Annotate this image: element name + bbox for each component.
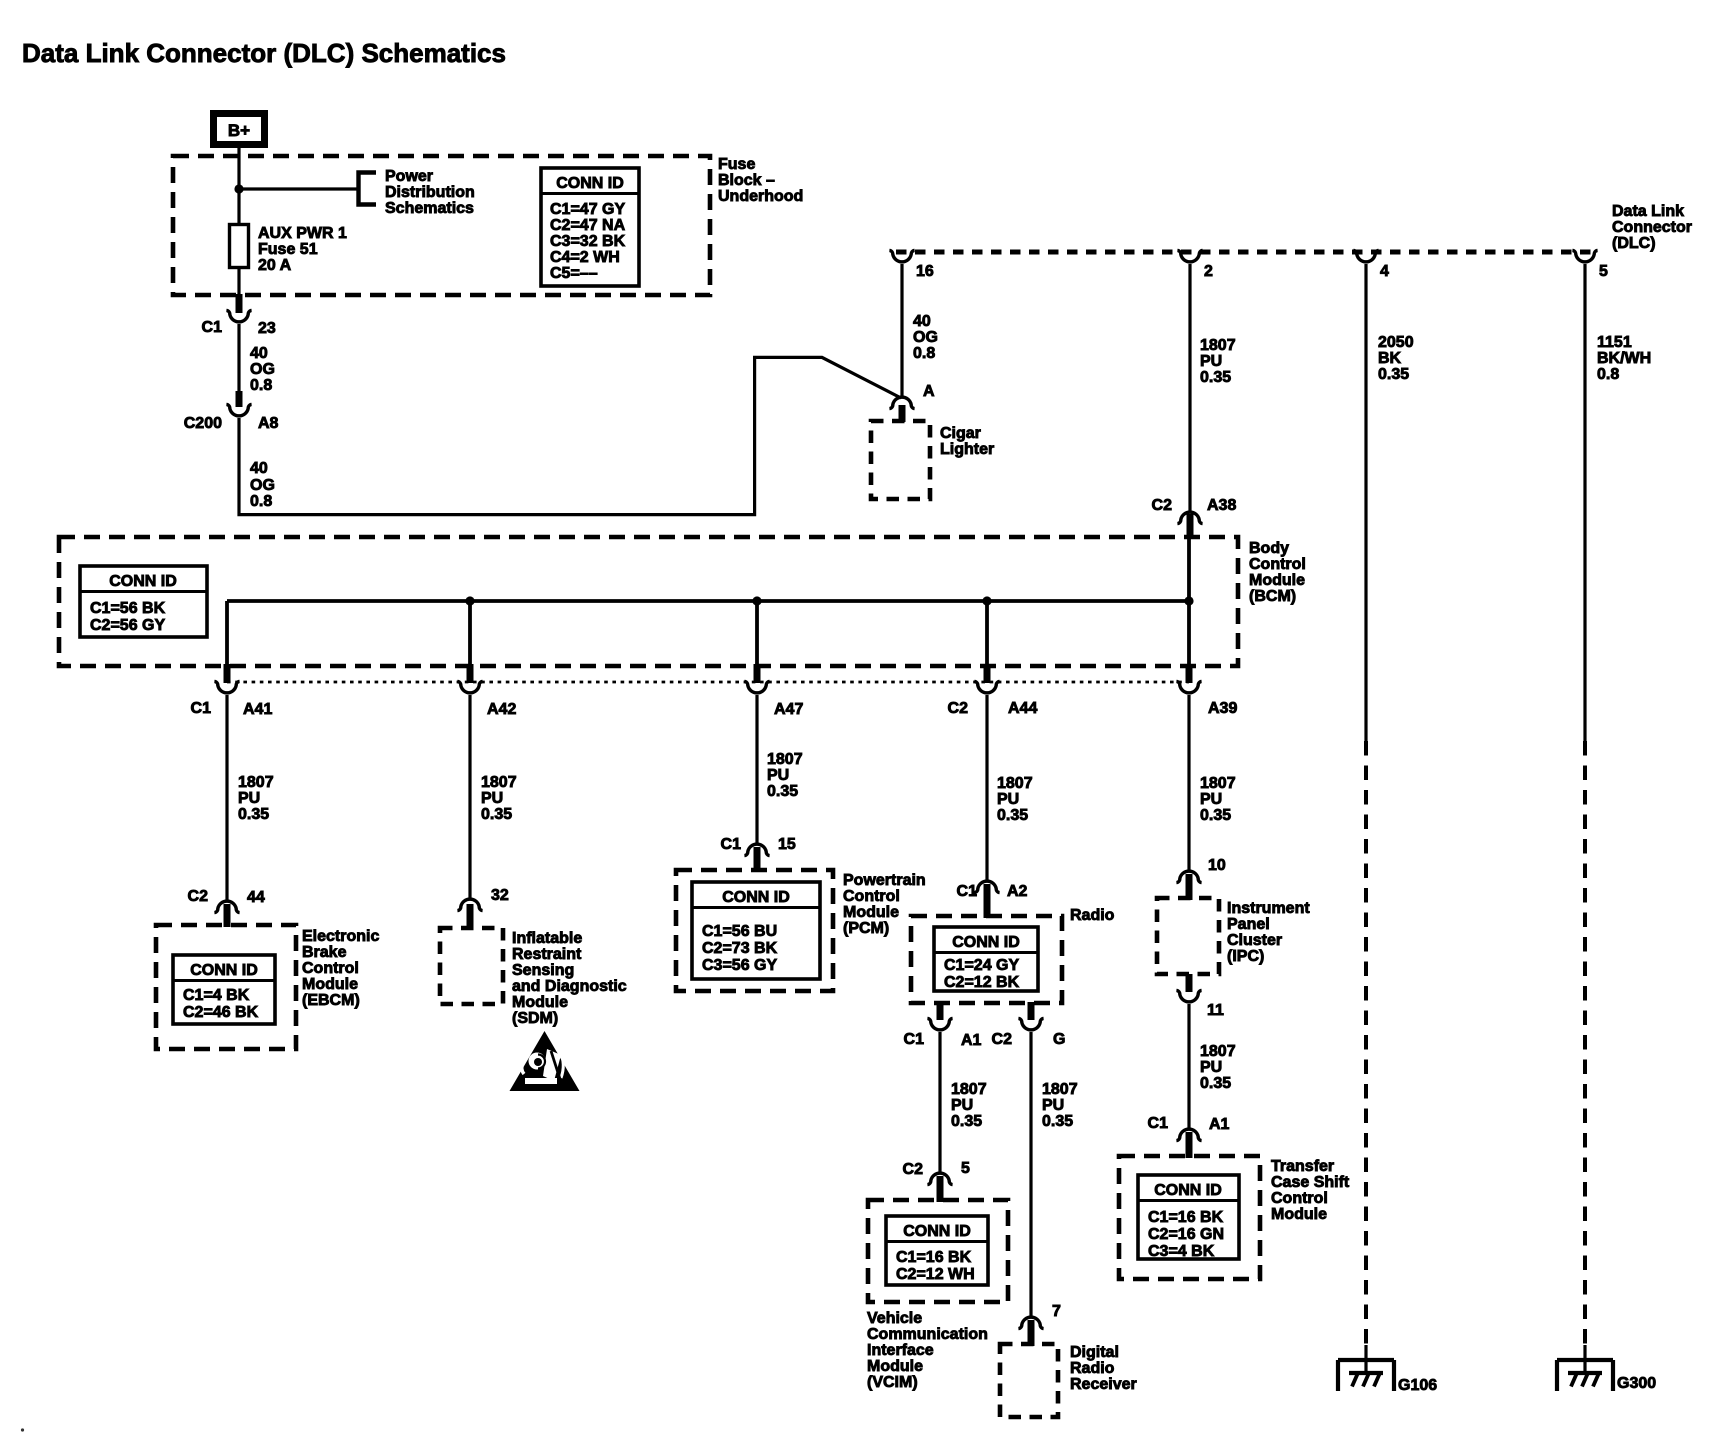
digital radio receiver dashed box [1000, 1344, 1058, 1417]
svg-text:2050: 2050 [1378, 334, 1414, 351]
svg-text:0.35: 0.35 [1378, 366, 1409, 383]
BCM internal bus wire [227, 599, 1189, 603]
svg-text:Power: Power [385, 168, 433, 185]
svg-text:(BCM): (BCM) [1249, 588, 1296, 605]
CONN ID table (fuse block) [541, 168, 639, 286]
svg-text:Cigar: Cigar [940, 425, 981, 442]
svg-text:C1=56 BK: C1=56 BK [90, 600, 166, 617]
svg-text:Data Link: Data Link [1612, 203, 1684, 220]
svg-text:CONN ID: CONN ID [1154, 1182, 1222, 1199]
connector BCM pin A42 [457, 681, 482, 692]
svg-text:OG: OG [913, 329, 938, 346]
svg-text:C1=16 BK: C1=16 BK [896, 1249, 972, 1266]
svg-text:Control: Control [843, 888, 900, 905]
svg-text:C2: C2 [1152, 497, 1173, 514]
connector TCSCM C1 pin A1 [1148, 1115, 1230, 1158]
svg-text:Control: Control [1249, 556, 1306, 573]
svg-text:0.35: 0.35 [951, 1113, 982, 1130]
power distribution reference bracket [359, 173, 377, 205]
connector A cigar lighter [889, 383, 935, 422]
svg-text:16: 16 [916, 263, 934, 280]
svg-text:C200: C200 [184, 415, 222, 432]
svg-text:Block –: Block – [718, 172, 775, 189]
svg-text:Fuse: Fuse [718, 156, 755, 173]
svg-text:Lighter: Lighter [940, 441, 994, 458]
svg-text:A42: A42 [487, 701, 516, 718]
svg-text:PU: PU [481, 790, 503, 807]
svg-text:A1: A1 [961, 1032, 982, 1049]
connector digital radio receiver pin 7 [1018, 1303, 1061, 1346]
svg-text:A44: A44 [1008, 700, 1037, 717]
svg-text:10: 10 [1208, 857, 1226, 874]
svg-text:AUX PWR 1: AUX PWR 1 [258, 225, 347, 242]
svg-text:15: 15 [778, 836, 796, 853]
svg-text:C1=47 GY: C1=47 GY [550, 201, 625, 218]
svg-text:Electronic: Electronic [302, 928, 379, 945]
svg-text:C2=47 NA: C2=47 NA [550, 217, 626, 234]
wire 1151 BK/WH 0.8 (DLC 5 to G300, solid then dashed) [1583, 264, 1586, 741]
svg-text:C1: C1 [904, 1031, 925, 1048]
svg-text:(IPC): (IPC) [1227, 948, 1264, 965]
wire 40 OG 0.8 (DLC 16 to cigar lighter) [900, 264, 903, 396]
svg-text:B+: B+ [228, 121, 250, 140]
svg-text:7: 7 [1052, 1303, 1061, 1320]
svg-text:Communication: Communication [867, 1326, 988, 1343]
svg-text:0.35: 0.35 [481, 806, 512, 823]
svg-text:C2: C2 [188, 888, 209, 905]
svg-text:1807: 1807 [1200, 337, 1236, 354]
connector BCM pin A47 [744, 681, 769, 692]
svg-text:Receiver: Receiver [1070, 1376, 1137, 1393]
svg-text:Radio: Radio [1070, 1360, 1115, 1377]
svg-text:Sensing: Sensing [512, 962, 574, 979]
svg-text:PU: PU [951, 1097, 973, 1114]
DLC module dotted boundary line [896, 250, 1592, 255]
svg-text:C2=46 BK: C2=46 BK [183, 1004, 259, 1021]
svg-text:Module: Module [302, 976, 358, 993]
svg-text:C3=56 GY: C3=56 GY [702, 957, 777, 974]
svg-text:Instrument: Instrument [1227, 900, 1310, 917]
svg-text:C2=12 WH: C2=12 WH [896, 1266, 975, 1283]
svg-text:C2: C2 [948, 700, 969, 717]
svg-text:Body: Body [1249, 540, 1289, 557]
svg-text:0.35: 0.35 [1200, 369, 1231, 386]
svg-text:PU: PU [238, 790, 260, 807]
svg-text:23: 23 [258, 320, 276, 337]
svg-text:C1=56 BU: C1=56 BU [702, 923, 777, 940]
svg-text:BK/WH: BK/WH [1597, 350, 1651, 367]
svg-text:Vehicle: Vehicle [867, 1310, 922, 1327]
connector DLC pin 5 [1572, 250, 1597, 261]
svg-text:Control: Control [1271, 1190, 1328, 1207]
svg-text:C3=4 BK: C3=4 BK [1148, 1243, 1215, 1260]
connector EBCM C2 pin 44 [188, 888, 265, 927]
svg-text:Module: Module [867, 1358, 923, 1375]
fuse block underhood dashed box [173, 156, 710, 295]
svg-text:A39: A39 [1208, 700, 1237, 717]
svg-text:(PCM): (PCM) [843, 920, 889, 937]
connector radio C1 pin A1 (output) [904, 1002, 982, 1049]
CONN ID table (VCIM) [886, 1216, 988, 1285]
ground G106 [1338, 1345, 1437, 1394]
svg-text:C1=24 GY: C1=24 GY [944, 957, 1019, 974]
connector C1 pin 23 (fuse block output) [202, 294, 276, 337]
svg-text:0.35: 0.35 [997, 807, 1028, 824]
svg-text:BK: BK [1378, 350, 1402, 367]
BCM bus stubs down [227, 537, 1189, 666]
svg-text:C2: C2 [992, 1031, 1013, 1048]
wire 1807 PU 0.35 (A42 to SDM) [468, 695, 471, 898]
svg-text:1807: 1807 [767, 751, 803, 768]
svg-text:CONN ID: CONN ID [190, 962, 258, 979]
svg-text:PU: PU [1200, 791, 1222, 808]
svg-text:Module: Module [512, 994, 568, 1011]
fuse F51 AUX PWR 1 20A [230, 225, 249, 268]
svg-text:Case Shift: Case Shift [1271, 1174, 1350, 1191]
svg-text:C2: C2 [903, 1161, 924, 1178]
ground G300 [1557, 1345, 1656, 1392]
connector BCM pin A39 [1176, 681, 1201, 692]
connector DLC pin 2 [1177, 250, 1202, 261]
BCM connector row fine dotted line [227, 681, 1189, 684]
svg-text:Module: Module [1249, 572, 1305, 589]
connector BCM C2 pin A44 [974, 681, 999, 692]
BCM pin stubs through box edge [227, 664, 1189, 683]
cigar lighter dashed box [871, 421, 930, 499]
junction node dots on bus [465, 596, 474, 605]
svg-text:0.35: 0.35 [1042, 1113, 1073, 1130]
svg-text:A: A [923, 383, 935, 400]
wire 1807 PU 0.35 (IPC 11 to transfer case module) [1187, 1004, 1190, 1128]
node junction at power distribution tap [234, 184, 243, 193]
svg-text:A38: A38 [1207, 497, 1236, 514]
svg-text:CONN ID: CONN ID [109, 573, 177, 590]
svg-text:G300: G300 [1617, 1375, 1656, 1392]
wire 1807 PU 0.35 (A41 to EBCM) [225, 695, 228, 900]
wire 40 OG 0.8 (C200 to cigar lighter splice) [239, 357, 901, 514]
vehicle communication interface module dashed box [868, 1200, 1008, 1302]
svg-text:PU: PU [1200, 353, 1222, 370]
wire 1807 PU 0.35 (DLC 2 to BCM A38) [1188, 264, 1191, 511]
svg-text:0.8: 0.8 [250, 493, 272, 510]
svg-text:20 A: 20 A [258, 257, 292, 274]
svg-text:(EBCM): (EBCM) [302, 992, 360, 1009]
svg-text:C5=––: C5=–– [550, 265, 598, 282]
svg-text:C2=16 GN: C2=16 GN [1148, 1226, 1224, 1243]
svg-text:0.35: 0.35 [1200, 807, 1231, 824]
wire 1807 PU 0.35 (A44 to radio) [985, 695, 988, 880]
svg-text:Powertrain: Powertrain [843, 872, 926, 889]
svg-text:40: 40 [913, 313, 931, 330]
svg-text:Module: Module [843, 904, 899, 921]
svg-text:CONN ID: CONN ID [722, 889, 790, 906]
svg-text:44: 44 [247, 889, 265, 906]
electronic brake control module dashed box [156, 925, 296, 1049]
svg-text:C1: C1 [957, 883, 978, 900]
svg-text:C1=4 BK: C1=4 BK [183, 987, 250, 1004]
svg-text:5: 5 [961, 1160, 970, 1177]
svg-text:Connector: Connector [1612, 219, 1692, 236]
svg-text:1807: 1807 [997, 775, 1033, 792]
airbag caution symbol [510, 1031, 580, 1091]
connector BCM C2 pin A38 [1152, 497, 1237, 539]
wire 1807 PU 0.35 (radio G to digital radio receiver) [1029, 1032, 1032, 1316]
svg-text:Digital: Digital [1070, 1344, 1119, 1361]
connector radio C2 pin G (output) [992, 1002, 1066, 1048]
svg-text:PU: PU [1200, 1059, 1222, 1076]
CONN ID table (BCM) [80, 566, 207, 637]
connector PCM C1 pin 15 [721, 836, 796, 872]
inflatable restraint SDM dashed box [440, 928, 503, 1004]
svg-text:Fuse 51: Fuse 51 [258, 241, 318, 258]
svg-text:A47: A47 [774, 701, 803, 718]
svg-text:CONN ID: CONN ID [903, 1223, 971, 1240]
inline connector C200 pin A8 [184, 391, 279, 432]
svg-text:A8: A8 [258, 415, 279, 432]
connector DLC pin 16 [889, 250, 914, 261]
transfer case shift control module dashed box [1119, 1156, 1260, 1279]
svg-text:40: 40 [250, 460, 268, 477]
svg-text:0.8: 0.8 [250, 377, 272, 394]
svg-text:Brake: Brake [302, 944, 347, 961]
svg-text:Distribution: Distribution [385, 184, 475, 201]
svg-text:2: 2 [1204, 263, 1213, 280]
svg-text:A2: A2 [1007, 883, 1028, 900]
svg-text:1807: 1807 [951, 1081, 987, 1098]
svg-text:1151: 1151 [1597, 334, 1632, 351]
connector DLC pin 4 [1353, 250, 1378, 261]
wire tap to power distribution bracket [239, 187, 357, 190]
svg-text:Transfer: Transfer [1271, 1158, 1334, 1175]
stray dot artifact [21, 1428, 24, 1431]
connector BCM C1 pin A41 [214, 681, 239, 692]
svg-text:32: 32 [491, 887, 509, 904]
svg-text:C1: C1 [191, 700, 212, 717]
body control module dashed box [59, 537, 1238, 666]
svg-text:Control: Control [302, 960, 359, 977]
svg-text:C1: C1 [1148, 1115, 1169, 1132]
CONN ID table (EBCM) [173, 955, 275, 1024]
svg-text:Restraint: Restraint [512, 946, 582, 963]
svg-text:0.35: 0.35 [767, 783, 798, 800]
svg-text:C1: C1 [721, 836, 742, 853]
svg-text:1807: 1807 [1200, 1043, 1236, 1060]
svg-text:PU: PU [767, 767, 789, 784]
svg-text:and Diagnostic: and Diagnostic [512, 978, 627, 995]
connector SDM pin 32 [457, 887, 508, 930]
svg-text:4: 4 [1380, 263, 1389, 280]
svg-text:OG: OG [250, 477, 275, 494]
svg-text:G: G [1053, 1031, 1065, 1048]
svg-text:40: 40 [250, 345, 268, 362]
battery feed B+ [214, 114, 265, 145]
svg-text:Interface: Interface [867, 1342, 934, 1359]
connector IPC pin 10 [1176, 857, 1225, 900]
powertrain control module dashed box [676, 870, 833, 991]
svg-text:C2=12 BK: C2=12 BK [944, 974, 1020, 991]
wire 40 OG 0.8 (C1:23 to C200:A8) [237, 324, 240, 392]
svg-text:Cluster: Cluster [1227, 932, 1282, 949]
svg-text:A41: A41 [243, 701, 272, 718]
svg-text:A1: A1 [1209, 1116, 1230, 1133]
svg-text:Inflatable: Inflatable [512, 930, 582, 947]
svg-text:C2=56 GY: C2=56 GY [90, 617, 165, 634]
svg-text:0.8: 0.8 [1597, 366, 1619, 383]
svg-text:1807: 1807 [1200, 775, 1236, 792]
wire 1807 PU 0.35 (A39 to IPC) [1187, 695, 1190, 870]
svg-text:CONN ID: CONN ID [556, 175, 624, 192]
svg-text:0.8: 0.8 [913, 345, 935, 362]
svg-text:G106: G106 [1398, 1377, 1437, 1394]
svg-text:C3=32 BK: C3=32 BK [550, 233, 626, 250]
svg-text:0.35: 0.35 [1200, 1075, 1231, 1092]
CONN ID table (radio) [934, 927, 1038, 991]
svg-text:CONN ID: CONN ID [952, 934, 1020, 951]
svg-text:Data Link Connector (DLC) Sche: Data Link Connector (DLC) Schematics [22, 38, 506, 68]
connector radio C1 pin A2 [957, 881, 1028, 918]
svg-text:5: 5 [1599, 263, 1608, 280]
svg-text:11: 11 [1207, 1002, 1224, 1019]
svg-text:0.35: 0.35 [238, 806, 269, 823]
svg-text:(VCIM): (VCIM) [867, 1374, 918, 1391]
svg-text:C1: C1 [202, 319, 223, 336]
svg-text:1807: 1807 [481, 774, 517, 791]
svg-text:Underhood: Underhood [718, 188, 803, 205]
svg-text:Module: Module [1271, 1206, 1327, 1223]
wire 1807 PU 0.35 (radio A1 to VCIM) [938, 1032, 941, 1172]
svg-text:C2=73 BK: C2=73 BK [702, 940, 778, 957]
svg-text:(SDM): (SDM) [512, 1010, 558, 1027]
wire B+ down to fuse [237, 148, 240, 226]
svg-text:1807: 1807 [238, 774, 274, 791]
wire 2050 BK 0.35 (DLC 4 to G106, solid then dashed) [1364, 264, 1367, 741]
wire 1807 PU 0.35 (A47 to PCM) [755, 695, 758, 843]
connector VCIM C2 pin 5 [903, 1160, 970, 1202]
connector IPC pin 11 (output) [1176, 974, 1224, 1019]
CONN ID table (TCSCM) [1138, 1175, 1239, 1260]
svg-text:Panel: Panel [1227, 916, 1270, 933]
svg-text:OG: OG [250, 361, 275, 378]
svg-text:PU: PU [997, 791, 1019, 808]
CONN ID table (PCM) [692, 882, 820, 979]
svg-text:C4=2 WH: C4=2 WH [550, 249, 620, 266]
radio dashed box [911, 916, 1062, 1003]
svg-text:1807: 1807 [1042, 1081, 1078, 1098]
instrument panel cluster dashed box [1157, 898, 1219, 974]
svg-text:PU: PU [1042, 1097, 1064, 1114]
svg-text:(DLC): (DLC) [1612, 235, 1656, 252]
svg-text:C1=16 BK: C1=16 BK [1148, 1209, 1224, 1226]
svg-text:Radio: Radio [1070, 907, 1115, 924]
svg-text:Schematics: Schematics [385, 200, 474, 217]
